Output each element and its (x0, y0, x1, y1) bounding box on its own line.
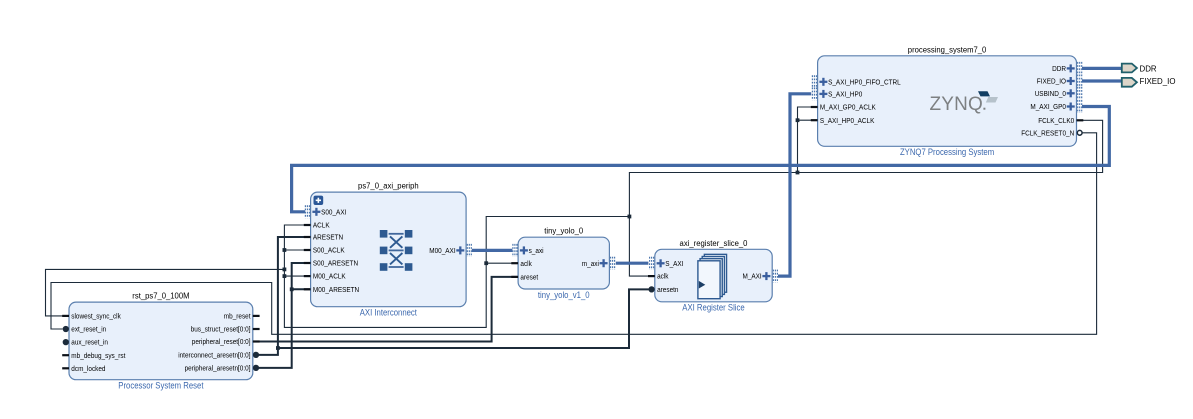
wire DDR to external port (1082, 67, 1122, 70)
wire M00_AXI to tiny_yolo s_axi (472, 249, 513, 252)
pin m_axi (582, 257, 615, 270)
junction FCLK_CLK0 main at x797 (796, 171, 800, 175)
wire interconnect_aresetn branch to slice aresetn (278, 289, 649, 348)
pin M_AXI (slice) (743, 270, 778, 283)
svg-text:FIXED_IO: FIXED_IO (1037, 79, 1067, 86)
wire FIXED_IO to external port (1082, 79, 1122, 82)
pin ARESETN (304, 235, 343, 242)
junction FCLK_CLK0 at slowest branch (283, 268, 287, 272)
svg-text:M00_ARESETN: M00_ARESETN (313, 287, 359, 294)
external port FIXED_IO (1122, 76, 1176, 87)
pin ACLK (304, 223, 330, 230)
svg-text:M00_ACLK: M00_ACLK (313, 274, 346, 281)
pin M_AXI_GP0 (1030, 100, 1081, 113)
svg-text:AXI Register Slice: AXI Register Slice (682, 303, 744, 313)
svg-text:ACLK: ACLK (313, 223, 330, 230)
svg-text:FCLK_RESET0_N: FCLK_RESET0_N (1021, 130, 1074, 137)
junction peripheral_aresetn at M00_ARESETN (290, 287, 294, 291)
pin S_AXI_HP0_ACLK (811, 118, 875, 125)
junction FCLK_CLK0 at S00_ACLK (283, 248, 287, 252)
svg-text:processing_system7_0: processing_system7_0 (908, 45, 987, 54)
svg-text:slowest_sync_clk: slowest_sync_clk (71, 314, 121, 321)
pin M_AXI_GP0_ACLK (811, 105, 876, 112)
svg-text:mb_debug_sys_rst: mb_debug_sys_rst (71, 353, 125, 360)
svg-text:aclk: aclk (520, 261, 532, 268)
wire FCLK_RESET0_N net: PS pin to rst ext_reset_in (51, 133, 1097, 334)
wire peripheral_reset net: rst pin to tiny_yolo areset (253, 277, 518, 342)
icon AXI Register Slice pages (698, 254, 727, 298)
junction FCLK_CLK0 at M00_ACLK (283, 274, 287, 278)
svg-text:aux_reset_in: aux_reset_in (71, 340, 108, 347)
pin M00_ACLK (304, 274, 346, 281)
pin FIXED_IO (1037, 75, 1082, 88)
svg-text:ZYNQ7 Processing System: ZYNQ7 Processing System (900, 147, 994, 157)
junction FCLK_CLK0 at tiny aclk (484, 261, 488, 265)
pin aclk (tiny_yolo) (511, 261, 532, 268)
block tiny_yolo_0 (518, 227, 609, 300)
svg-text:AXI Interconnect: AXI Interconnect (360, 308, 418, 318)
pin S00_ACLK (304, 248, 345, 255)
svg-text:FCLK_CLK0: FCLK_CLK0 (1038, 118, 1074, 125)
svg-text:FIXED_IO: FIXED_IO (1140, 76, 1176, 86)
pin ext_reset_in (63, 327, 106, 334)
svg-text:S_AXI: S_AXI (665, 261, 683, 268)
icon ZYNQ logo (930, 91, 999, 115)
wire slice M_AXI to PS S_AXI_HP0 (778, 94, 811, 276)
pin areset (511, 275, 538, 282)
pin aux_reset_in (63, 340, 108, 347)
svg-text:Processor System Reset: Processor System Reset (118, 381, 204, 391)
svg-text:aclk: aclk (657, 274, 669, 281)
svg-text:interconnect_aresetn[0:0]: interconnect_aresetn[0:0] (178, 353, 250, 360)
wire FCLK_CLK0 branch to rst slowest_sync_clk (46, 269, 285, 316)
pin aresetn (slice) (649, 287, 678, 294)
svg-text:mb_reset: mb_reset (224, 314, 251, 321)
svg-text:S00_ACLK: S00_ACLK (313, 248, 345, 255)
wire FCLK_CLK0 branch to M_AXI_GP0_ACLK and S_AXI_HP0_ACLK (798, 107, 818, 173)
pin USBIND_0 (1035, 87, 1082, 100)
pin interconnect_aresetn (178, 353, 258, 360)
pin FCLK_CLK0 (1038, 118, 1083, 125)
block processing_system7_0 (ZYNQ7 Processing System) (818, 45, 1077, 157)
svg-text:tiny_yolo_0: tiny_yolo_0 (544, 227, 583, 236)
pin bus_struct_reset (191, 327, 260, 334)
svg-text:ps7_0_axi_periph: ps7_0_axi_periph (358, 182, 419, 191)
expand button on AXI Interconnect (314, 196, 324, 205)
svg-text:DDR: DDR (1052, 66, 1066, 73)
pin S_AXI_HP0 (812, 87, 862, 100)
block rst_ps7_0_100M (Processor System Reset) (69, 292, 253, 391)
svg-text:S_AXI_HP0_ACLK: S_AXI_HP0_ACLK (820, 118, 875, 125)
wire FCLK_CLK0 branch to M00_ACLK (284, 275, 310, 277)
pin s_axi (513, 244, 544, 257)
block axi_register_slice_0 (AXI Register Slice) (655, 239, 772, 313)
svg-text:m_axi: m_axi (582, 261, 599, 268)
svg-text:peripheral_reset[0:0]: peripheral_reset[0:0] (192, 339, 251, 346)
svg-text:rst_ps7_0_100M: rst_ps7_0_100M (132, 292, 190, 301)
svg-text:bus_struct_reset[0:0]: bus_struct_reset[0:0] (191, 327, 251, 334)
svg-text:areset: areset (520, 275, 538, 282)
pin S00_AXI (305, 205, 346, 218)
pin S_AXI_HP0_FIFO_CTRL (812, 75, 900, 88)
svg-text:ARESETN: ARESETN (313, 235, 343, 242)
svg-text:S00_ARESETN: S00_ARESETN (313, 261, 358, 268)
svg-text:aresetn: aresetn (657, 287, 678, 294)
pin dcm_locked (62, 366, 105, 373)
external port DDR (1122, 63, 1157, 73)
svg-text:ZYNQ: ZYNQ (930, 94, 984, 115)
block ps7_0_axi_periph (AXI Interconnect) (311, 182, 467, 318)
pin peripheral_reset (192, 339, 260, 346)
pin M00_AXI (429, 244, 471, 257)
pin slowest_sync_clk (62, 314, 121, 321)
svg-text:dcm_locked: dcm_locked (71, 366, 105, 373)
junction FCLK_CLK0 at x629 y216 (628, 215, 632, 219)
wire FCLK_CLK0 net main: PS pin right then down then left to slice aclk (629, 120, 1102, 276)
icon AXI Interconnect crossbar (380, 230, 413, 271)
wire tiny_yolo m_axi to slice S_AXI (616, 262, 649, 265)
wire interconnect_aresetn net: rst pin up to ICN ARESETN (259, 237, 311, 355)
svg-text:s_axi: s_axi (529, 248, 544, 255)
pin M00_ARESETN (304, 287, 359, 294)
junction interconnect_aresetn branch (276, 346, 280, 350)
svg-text:S00_AXI: S00_AXI (321, 209, 346, 216)
pin mb_reset (224, 314, 260, 321)
wire FCLK_CLK0 branch to tiny_yolo aclk (486, 262, 518, 264)
pin mb_debug_sys_rst (62, 353, 125, 360)
wire peripheral_aresetn branch to M00_ARESETN (292, 288, 311, 290)
svg-text:M_AXI: M_AXI (743, 274, 762, 281)
wire peripheral_aresetn net: rst pin up to S00_ARESETN (259, 263, 311, 368)
svg-text:tiny_yolo_v1_0: tiny_yolo_v1_0 (538, 290, 590, 300)
svg-text:M00_AXI: M00_AXI (429, 248, 455, 255)
svg-text:DDR: DDR (1140, 63, 1157, 73)
svg-text:ext_reset_in: ext_reset_in (71, 327, 106, 334)
pin peripheral_aresetn (185, 366, 259, 373)
pin S00_ARESETN (304, 261, 358, 268)
svg-text:M_AXI_GP0: M_AXI_GP0 (1030, 104, 1066, 111)
wire FCLK_CLK0 branch mid via y216 x486 y327 to ICN ACLK (284, 217, 629, 328)
pin S_AXI (slice) (650, 257, 684, 270)
svg-text:S_AXI_HP0_FIFO_CTRL: S_AXI_HP0_FIFO_CTRL (828, 79, 901, 86)
pin FCLK_RESET0_N (1021, 130, 1082, 137)
svg-text:M_AXI_GP0_ACLK: M_AXI_GP0_ACLK (820, 105, 876, 112)
wire M_AXI_GP0 net: PS to ICN S00_AXI (292, 107, 1110, 212)
svg-text:USBIND_0: USBIND_0 (1035, 91, 1066, 98)
svg-text:axi_register_slice_0: axi_register_slice_0 (680, 239, 748, 248)
pin aclk (slice) (648, 274, 669, 281)
wire FCLK_CLK0 branch to S00_ACLK (284, 249, 310, 251)
junction FCLK_CLK0 at S_AXI_HP0_ACLK branch (796, 118, 800, 122)
svg-text:peripheral_aresetn[0:0]: peripheral_aresetn[0:0] (185, 366, 251, 373)
svg-text:S_AXI_HP0: S_AXI_HP0 (828, 92, 862, 99)
pin DDR (1052, 62, 1082, 75)
